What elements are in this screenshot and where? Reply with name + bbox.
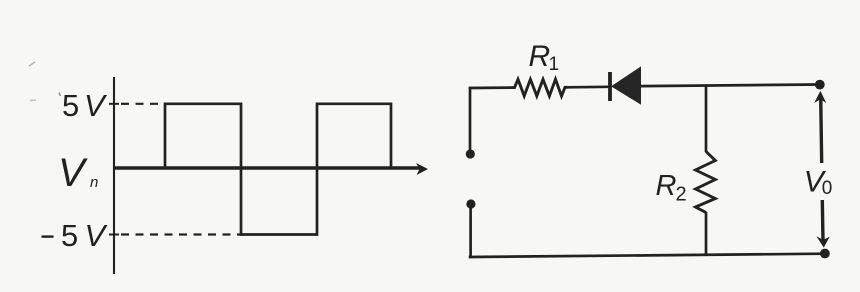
wire: top-left corner to R1 [469,86,512,89]
label +5 V [62,88,108,123]
svg-text:2: 2 [676,184,687,206]
diode D1 cathode bar [608,72,612,101]
node: bottom-right output terminal dot [820,249,830,259]
input graph vertical axis [113,77,115,274]
resistor R2 [696,152,716,213]
-5V tick on axis [109,234,119,236]
label V0 [804,166,833,199]
node: upper input terminal dot [466,149,475,158]
node: lower input terminal dot [466,199,475,208]
resistor R1 [512,79,568,96]
svg-text:R: R [656,170,677,202]
wire: R1 to diode [568,85,610,88]
svg-text:R: R [529,40,551,73]
V0 arrow lower line segment [821,200,825,241]
wire: left vertical lower segment [469,204,472,258]
V0 arrow down arrowhead [816,236,829,247]
time axis arrowhead [416,163,428,175]
svg-text:V: V [84,88,108,123]
svg-text:5: 5 [61,218,78,253]
time axis [114,166,420,170]
label R1 [529,40,560,75]
input square waveform [114,104,391,235]
wire: bottom [469,254,825,257]
label -5 V : minus stroke [42,235,54,237]
label Vin [58,151,98,195]
V0 arrow up arrowhead [814,91,826,103]
svg-text:V: V [85,218,109,253]
svg-text:1: 1 [549,54,560,75]
V0 arrow upper line segment [821,97,822,163]
node: top-right output terminal dot [815,80,825,90]
label R2 [656,170,687,205]
wire: diode to top-right node [641,85,821,87]
wire: R2 top lead [705,85,708,152]
-5V dashed reference line [121,233,241,235]
scan speck above 5 [59,93,61,97]
+5V dashed reference line [121,103,164,105]
scan speck at left edge [30,100,36,102]
svg-text:0: 0 [822,178,833,199]
wire: left vertical upper segment [469,87,472,153]
svg-text:5: 5 [62,88,79,123]
scan smudge top-left [29,62,35,66]
label -5 V : text [61,218,109,253]
+5V tick on axis [109,103,119,105]
wire: R2 bottom lead [705,212,708,256]
diode D1 triangle [612,67,641,104]
svg-text:n: n [90,174,98,191]
svg-text:V: V [58,151,88,195]
